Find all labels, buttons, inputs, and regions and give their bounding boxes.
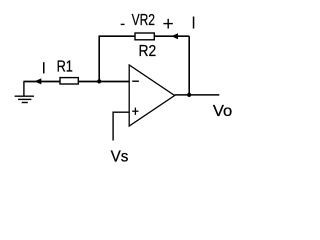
wire: feedback top horizontal [99,35,190,37]
wire: input wire from ground corner to op-amp inverting input [24,81,130,83]
svg-text:VR2: VR2 [132,12,155,29]
label I (feedback current) [193,17,195,29]
label I (input current) [43,62,45,73]
wire: feedback left vertical from inverting node up [98,36,100,81]
wire: non-inverting input wire with corner down to Vs [113,112,129,140]
ground [15,81,34,102]
wire: feedback right vertical down to output node [188,36,190,95]
svg-text:R2: R2 [139,43,157,60]
svg-text:Vs: Vs [111,149,129,166]
node at output junction [187,93,191,97]
svg-text:R1: R1 [57,58,73,75]
current arrow I on feedback wire [171,33,178,39]
node at inverting input junction [97,79,101,83]
current arrow I on input wire [34,78,41,84]
wire: output wire [175,94,220,96]
resistor R1 [60,78,78,84]
svg-text:Vo: Vo [213,103,233,120]
resistor R2 [135,33,154,40]
op-amp U1 [129,65,174,126]
polarity plus for VR2 [163,19,172,29]
polarity minus for VR2 [121,23,125,25]
